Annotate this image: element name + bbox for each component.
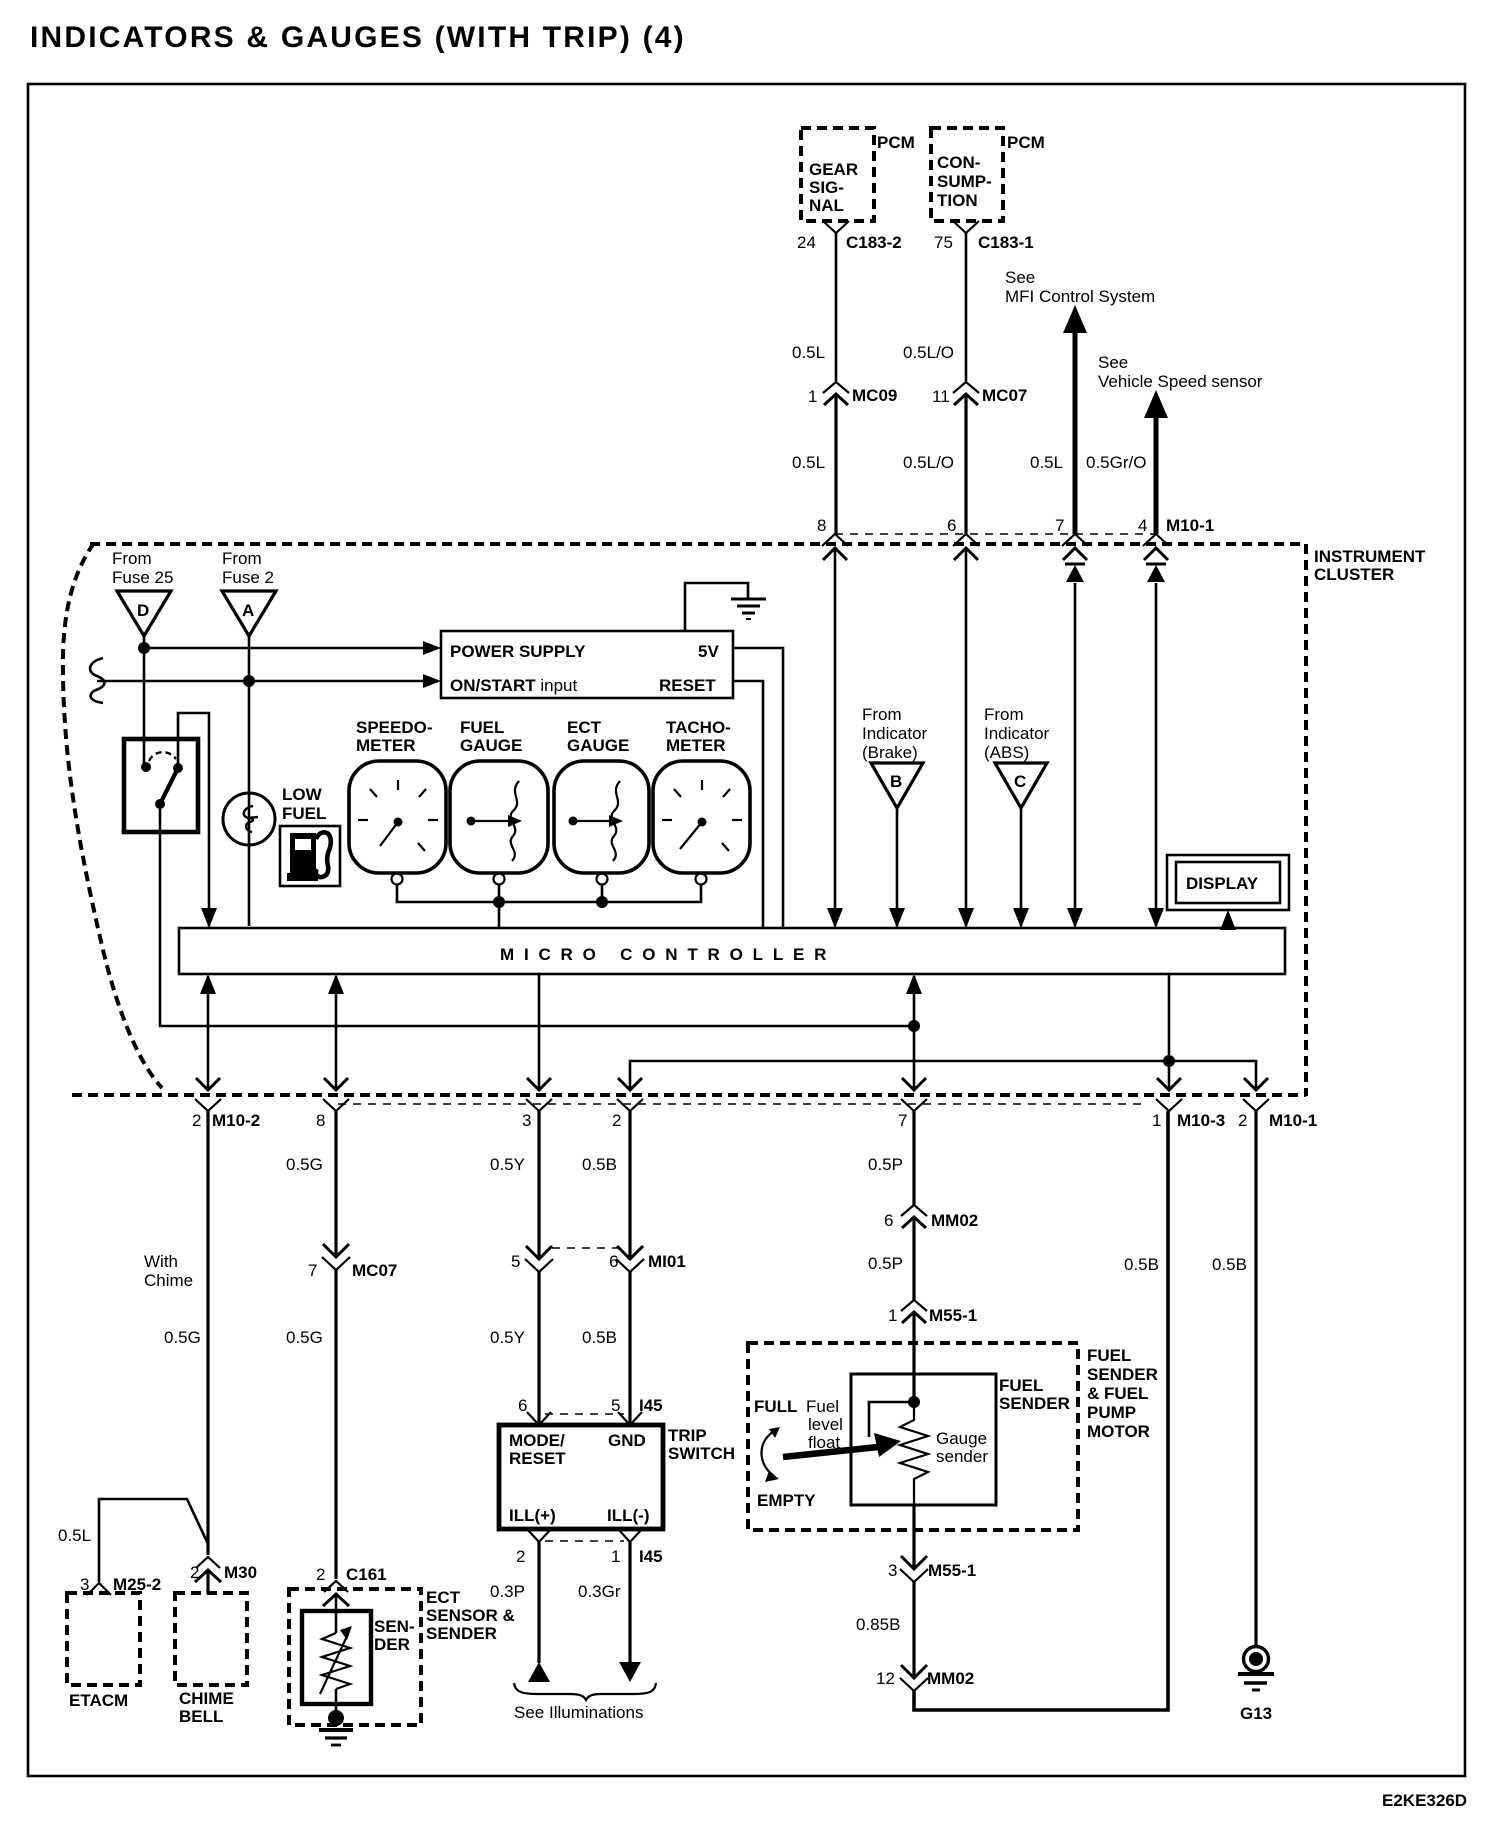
svg-text:0.5G: 0.5G [286, 1155, 323, 1174]
wire C183-1 to MC07 [965, 233, 968, 381]
wire A down through lamp to micro [248, 636, 251, 926]
connector pin8 [324, 1078, 348, 1090]
svg-text:Fuse 2: Fuse 2 [222, 568, 274, 587]
svg-text:2: 2 [316, 1565, 325, 1584]
svg-text:PCM: PCM [877, 133, 915, 152]
triangle B [871, 763, 923, 808]
svg-text:Gauge: Gauge [936, 1429, 987, 1448]
trip switch box [499, 1425, 663, 1529]
connector pin2 [618, 1078, 642, 1090]
svg-text:From: From [862, 705, 902, 724]
svg-text:3: 3 [888, 1561, 897, 1580]
svg-text:0.3Gr: 0.3Gr [578, 1582, 621, 1601]
svg-text:0.5B: 0.5B [582, 1155, 617, 1174]
connector C183-1 [953, 221, 979, 233]
svg-text:SUMP-: SUMP- [937, 172, 992, 191]
svg-text:D: D [137, 601, 149, 620]
svg-text:7: 7 [308, 1261, 317, 1280]
svg-text:SENDER: SENDER [1087, 1365, 1158, 1384]
float arm arrow [783, 1447, 878, 1457]
boundary connector pin 4 [1143, 534, 1169, 546]
svg-text:Vehicle Speed sensor: Vehicle Speed sensor [1098, 372, 1263, 391]
svg-text:CHIME: CHIME [179, 1689, 234, 1708]
diode symbol pin 7 [1065, 563, 1085, 566]
svg-text:0.5L/O: 0.5L/O [903, 453, 954, 472]
svg-text:0.5B: 0.5B [1124, 1255, 1159, 1274]
svg-text:& FUEL: & FUEL [1087, 1384, 1148, 1403]
dashed link I45 bottom [545, 1540, 624, 1542]
svg-text:FULL: FULL [754, 1397, 797, 1416]
switch box [124, 739, 198, 832]
svg-text:GAUGE: GAUGE [460, 736, 522, 755]
wiper wire [869, 1402, 914, 1437]
tachometer [653, 761, 750, 873]
wire D down to switch [143, 636, 146, 767]
wire D to power supply [144, 647, 428, 650]
svg-text:I45: I45 [639, 1547, 663, 1566]
svg-text:GAUGE: GAUGE [567, 736, 629, 755]
boundary connector pin 6 [953, 534, 979, 546]
svg-text:MOTOR: MOTOR [1087, 1422, 1150, 1441]
fuel sender inner box [851, 1374, 996, 1505]
svg-text:C: C [1014, 772, 1026, 791]
svg-text:METER: METER [666, 736, 726, 755]
svg-text:TACHO-: TACHO- [666, 718, 731, 737]
float swing arrow [761, 1430, 776, 1476]
svg-text:2: 2 [1238, 1111, 1247, 1130]
svg-text:0.5L: 0.5L [58, 1526, 91, 1545]
svg-text:MC09: MC09 [852, 386, 897, 405]
svg-text:BELL: BELL [179, 1707, 223, 1726]
svg-text:sender: sender [936, 1447, 988, 1466]
speedometer [349, 761, 446, 873]
connector MI01 left [526, 1246, 552, 1259]
svg-text:C183-1: C183-1 [978, 233, 1034, 252]
arrow to MFI control system [1073, 330, 1078, 534]
fuel pump icon box [280, 826, 340, 886]
svg-text:MC07: MC07 [352, 1261, 397, 1280]
gauge bus wires [397, 884, 701, 902]
node A junction [243, 675, 255, 687]
lamp [223, 793, 275, 845]
svg-text:level: level [808, 1415, 843, 1434]
svg-text:MC07: MC07 [982, 386, 1027, 405]
wire switch out to jog [178, 713, 209, 926]
svg-text:E2KE326D: E2KE326D [1382, 1791, 1467, 1810]
triangle C [995, 763, 1047, 808]
svg-text:SENSOR &: SENSOR & [426, 1606, 515, 1625]
switch dashed arc [149, 752, 176, 761]
ground symbol [731, 598, 766, 601]
svg-text:MFI Control System: MFI Control System [1005, 287, 1155, 306]
underbrace [514, 1683, 656, 1700]
svg-text:7: 7 [898, 1111, 907, 1130]
svg-text:2: 2 [192, 1111, 201, 1130]
svg-text:MM02: MM02 [931, 1211, 978, 1230]
wire pin4 to micro [1155, 583, 1158, 926]
wire RESET to micro [733, 681, 763, 928]
triangle A [222, 591, 276, 636]
svg-text:1: 1 [808, 387, 817, 406]
svg-text:0.5G: 0.5G [286, 1328, 323, 1347]
connector M55-1 pin1 [901, 1300, 927, 1311]
connector pin3 [527, 1078, 551, 1090]
wire sender down [912, 1505, 915, 1568]
svg-text:C183-2: C183-2 [846, 233, 902, 252]
svg-text:6: 6 [947, 516, 956, 535]
svg-text:B: B [890, 772, 902, 791]
svg-text:GEAR: GEAR [809, 160, 858, 179]
wire pin8 to micro [834, 548, 837, 926]
svg-text:POWER SUPPLY: POWER SUPPLY [450, 642, 586, 661]
cluster left dashed curve [63, 543, 162, 1088]
svg-text:INSTRUMENT: INSTRUMENT [1314, 547, 1426, 566]
wire pin1 M10-3 down [1168, 974, 1171, 1090]
svg-text:Indicator: Indicator [862, 724, 928, 743]
boundary connector pin 7 [1062, 534, 1088, 546]
wire pin6 to micro [965, 548, 968, 926]
svg-text:0.5L: 0.5L [792, 343, 825, 362]
svg-text:0.3P: 0.3P [490, 1582, 525, 1601]
svg-text:8: 8 [817, 516, 826, 535]
svg-text:0.85B: 0.85B [856, 1615, 900, 1634]
svg-text:M10-1: M10-1 [1166, 516, 1214, 535]
svg-text:M55-1: M55-1 [928, 1561, 976, 1580]
svg-text:1: 1 [888, 1306, 897, 1325]
switch contact right [173, 763, 183, 773]
svg-text:PCM: PCM [1007, 133, 1045, 152]
svg-text:M10-3: M10-3 [1177, 1111, 1225, 1130]
svg-text:SENDER: SENDER [426, 1624, 497, 1643]
wire C183-2 to MC09 [835, 233, 838, 381]
ECT sender inner box [302, 1611, 371, 1704]
svg-text:(ABS): (ABS) [984, 743, 1029, 762]
diode symbol pin 4 [1146, 563, 1166, 566]
connector M30 [196, 1557, 220, 1568]
wire pin2 to trip switch [628, 1111, 631, 1258]
svg-text:SEN-: SEN- [374, 1617, 415, 1636]
svg-text:Indicator: Indicator [984, 724, 1050, 743]
svg-text:2: 2 [516, 1547, 525, 1566]
svg-text:ILL(-): ILL(-) [607, 1506, 649, 1525]
branch to M25-2 [99, 1499, 208, 1582]
svg-text:ETACM: ETACM [69, 1691, 128, 1710]
svg-text:6: 6 [518, 1396, 527, 1415]
wire MI01 to I45 [537, 1272, 540, 1424]
svg-text:MODE/: MODE/ [509, 1431, 565, 1450]
connector C161 [324, 1581, 348, 1592]
gauge sender resistor [900, 1402, 928, 1505]
wire M10-1 to G13 [1254, 1111, 1257, 1646]
wire MC09 to cluster [834, 394, 837, 534]
svg-text:INDICATORS & GAUGES (WITH TRIP: INDICATORS & GAUGES (WITH TRIP) (4) [30, 21, 686, 54]
switch blade [160, 768, 178, 804]
svg-text:NAL: NAL [809, 196, 844, 215]
thermistor [322, 1633, 350, 1689]
connector I45 top right [618, 1412, 642, 1425]
svg-text:FUEL: FUEL [1087, 1346, 1131, 1365]
svg-text:Chime: Chime [144, 1271, 193, 1290]
svg-text:ON/START input: ON/START input [450, 676, 578, 695]
svg-text:12: 12 [876, 1669, 895, 1688]
fuel pump icon [290, 833, 316, 874]
wire sender to ground [335, 1689, 338, 1716]
svg-text:From: From [112, 549, 152, 568]
svg-text:3: 3 [522, 1111, 531, 1130]
connector MM02 pin12 [901, 1665, 927, 1678]
junction in fuel sender [908, 1396, 920, 1408]
display box [1167, 855, 1289, 910]
svg-text:ILL(+): ILL(+) [509, 1506, 556, 1525]
wire MC07 to cluster [964, 394, 967, 534]
switch contact left [141, 762, 151, 772]
svg-text:7: 7 [1055, 516, 1064, 535]
ground wire from power supply [685, 583, 748, 631]
svg-text:GND: GND [608, 1431, 646, 1450]
cluster bottom dashed boundary [72, 1093, 1306, 1097]
svg-text:DER: DER [374, 1635, 410, 1654]
svg-text:2: 2 [190, 1563, 199, 1582]
svg-text:EMPTY: EMPTY [757, 1491, 816, 1510]
svg-text:See: See [1098, 353, 1128, 372]
wire 5V to micro [733, 648, 783, 928]
svg-text:PUMP: PUMP [1087, 1403, 1136, 1422]
svg-text:DISPLAY: DISPLAY [1186, 874, 1259, 893]
svg-text:TION: TION [937, 191, 978, 210]
svg-text:M30: M30 [224, 1563, 257, 1582]
connector I45 bottom left [527, 1529, 551, 1542]
cluster top dashed boundary [90, 542, 1306, 546]
node bus junction [908, 1020, 920, 1032]
svg-text:1: 1 [611, 1547, 620, 1566]
svg-text:G13: G13 [1240, 1704, 1272, 1723]
wire MM02 to M55-1 [912, 1217, 915, 1300]
dashed link MI01 [552, 1247, 618, 1249]
svg-text:SWITCH: SWITCH [668, 1444, 735, 1463]
svg-text:Fuse 25: Fuse 25 [112, 568, 173, 587]
wire to MM02 pin12 [912, 1582, 915, 1677]
svg-text:0.5L: 0.5L [1030, 453, 1063, 472]
connector C183-2 [823, 221, 849, 233]
fuel return wire [914, 1111, 1168, 1710]
illumination arrow down [619, 1662, 641, 1682]
svg-text:ECT: ECT [567, 718, 602, 737]
svg-text:6: 6 [884, 1211, 893, 1230]
svg-text:0.5P: 0.5P [868, 1254, 903, 1273]
svg-text:M55-1: M55-1 [929, 1306, 977, 1325]
svg-text:From: From [222, 549, 262, 568]
gauge terminals [392, 874, 403, 885]
connector MM02 pin6 [901, 1205, 927, 1216]
PCM gear signal box [801, 128, 874, 221]
wire micro to display [1227, 922, 1230, 928]
PCM consumption box [931, 128, 1003, 221]
triangle D [117, 591, 171, 636]
svg-text:0.5G: 0.5G [164, 1328, 201, 1347]
svg-text:0.5Y: 0.5Y [490, 1328, 525, 1347]
connector MC07 [323, 1244, 349, 1257]
svg-text:4: 4 [1138, 516, 1147, 535]
wire pin3 to trip switch [537, 1111, 540, 1258]
svg-text:5V: 5V [698, 642, 719, 661]
wire ON/START to power supply [97, 680, 428, 683]
ground symbol ECT [319, 1728, 353, 1732]
wire with chime [206, 1111, 209, 1555]
svg-text:With: With [144, 1252, 178, 1271]
cluster right dashed boundary [1304, 544, 1308, 1096]
wire pin3 down [538, 974, 541, 1090]
wire ILL+ down [537, 1542, 540, 1663]
power supply box [441, 631, 733, 698]
connector M10-1 pin2 [1244, 1078, 1268, 1090]
svg-text:M10-2: M10-2 [212, 1111, 260, 1130]
svg-text:CLUSTER: CLUSTER [1314, 565, 1394, 584]
svg-text:11: 11 [932, 387, 950, 406]
svg-text:A: A [242, 601, 254, 620]
svg-text:0.5B: 0.5B [582, 1328, 617, 1347]
svg-text:TRIP: TRIP [668, 1426, 707, 1445]
thin dashed connector line top [835, 533, 1156, 535]
svg-text:SIG-: SIG- [809, 178, 844, 197]
wire pin7 to micro [1074, 583, 1077, 926]
fuel sender dashed box [748, 1343, 1078, 1530]
svg-text:MI01: MI01 [648, 1252, 686, 1271]
svg-text:SPEEDO-: SPEEDO- [356, 718, 433, 737]
svg-text:I45: I45 [639, 1396, 663, 1415]
svg-text:8: 8 [316, 1111, 325, 1130]
switch blade contact [155, 799, 165, 809]
ground G13 [1244, 1647, 1269, 1672]
wire B to micro [896, 808, 899, 926]
connector I45 top left [527, 1412, 551, 1425]
svg-text:MM02: MM02 [927, 1669, 974, 1688]
svg-text:0.5Y: 0.5Y [490, 1155, 525, 1174]
connector MC09 [823, 382, 849, 393]
svg-text:FUEL: FUEL [282, 804, 326, 823]
wire M55-1 into fuel sender [912, 1312, 915, 1402]
svg-text:0.5P: 0.5P [868, 1155, 903, 1174]
node D junction [138, 642, 150, 654]
ground dot [328, 1710, 344, 1726]
wire pin7 junction up to micro [913, 976, 916, 1026]
wire pin7 down [912, 1111, 915, 1205]
connector MI01 right [617, 1246, 643, 1259]
wire into sender [335, 1594, 338, 1633]
svg-text:ECT: ECT [426, 1588, 461, 1607]
svg-text:See Illuminations: See Illuminations [514, 1703, 643, 1722]
fuel gauge [450, 761, 548, 873]
svg-text:(Brake): (Brake) [862, 743, 918, 762]
svg-text:1: 1 [1152, 1111, 1161, 1130]
svg-text:RESET: RESET [509, 1449, 566, 1468]
boundary connector pin 8 [822, 534, 848, 546]
micro controller box [179, 928, 1285, 974]
svg-text:METER: METER [356, 736, 416, 755]
svg-text:RESET: RESET [659, 676, 716, 695]
svg-text:CON-: CON- [937, 153, 980, 172]
connector M55-1 pin3 [901, 1556, 927, 1569]
wire MC07 to C161 [334, 1270, 337, 1579]
svg-text:6: 6 [609, 1252, 618, 1271]
svg-text:5: 5 [511, 1252, 520, 1271]
svg-text:2: 2 [612, 1111, 621, 1130]
svg-text:M10-1: M10-1 [1269, 1111, 1317, 1130]
svg-text:0.5L/O: 0.5L/O [903, 343, 954, 362]
dashed link I45 top [545, 1413, 624, 1415]
svg-text:75: 75 [934, 233, 953, 252]
svg-text:LOW: LOW [282, 785, 323, 804]
ECT dashed box [289, 1589, 421, 1725]
wire C to micro [1020, 808, 1023, 926]
svg-text:24: 24 [797, 233, 816, 252]
thin dashed connector line bottom [338, 1103, 1148, 1105]
wire M10-2 up to micro [207, 976, 210, 1090]
svg-text:Fuel: Fuel [806, 1397, 839, 1416]
connector MC07 top [953, 382, 979, 393]
chime bell box [175, 1593, 247, 1685]
svg-text:FUEL: FUEL [460, 718, 504, 737]
wire switch bottom to bus [160, 804, 914, 1026]
connector M10-2 pin2 [196, 1078, 220, 1090]
svg-text:0.5Gr/O: 0.5Gr/O [1086, 453, 1146, 472]
svg-text:MICRO CONTROLLER: MICRO CONTROLLER [500, 945, 836, 964]
connector pin7 [902, 1078, 926, 1090]
svg-text:From: From [984, 705, 1024, 724]
illumination arrow up [528, 1662, 550, 1682]
svg-text:SENDER: SENDER [999, 1394, 1070, 1413]
svg-text:FUEL: FUEL [999, 1376, 1043, 1395]
svg-text:C161: C161 [346, 1565, 387, 1584]
wire pin8 to MC07 [334, 1111, 337, 1257]
svg-text:0.5L: 0.5L [792, 453, 825, 472]
wire pin8 up to micro [335, 976, 338, 1090]
ect gauge [554, 761, 649, 873]
connector M25-2 [87, 1583, 111, 1595]
bus to M10-1 [630, 1061, 1256, 1090]
wire ILL- down [628, 1542, 631, 1663]
svg-text:See: See [1005, 268, 1035, 287]
torn wire curl [90, 658, 104, 703]
svg-text:0.5B: 0.5B [1212, 1255, 1247, 1274]
ETACM box [67, 1593, 140, 1685]
arrow to vehicle speed sensor [1154, 415, 1159, 534]
connector I45 bottom right [618, 1529, 642, 1542]
connector M10-3 pin1 [1157, 1078, 1181, 1090]
